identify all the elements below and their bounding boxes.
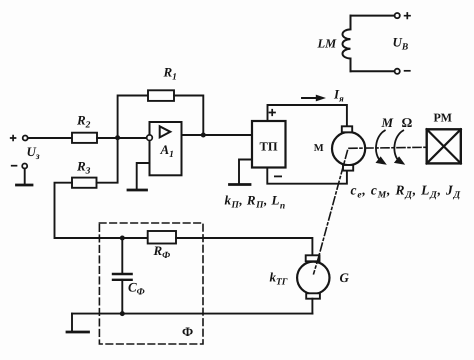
- wire filter bottom: [72, 313, 312, 315]
- wire LM top to plus terminal: [351, 15, 395, 17]
- node junction J1: [115, 135, 120, 140]
- node junction J3: [120, 236, 125, 241]
- resistor RF: [148, 231, 176, 244]
- svg-text:Ф: Ф: [182, 324, 193, 339]
- capacitor CF: [121, 238, 123, 274]
- wire TP ground: [239, 160, 252, 184]
- terminal plus field: [395, 13, 400, 18]
- arc arrow M: [376, 131, 385, 162]
- inductor LM coil: [343, 16, 351, 72]
- wire filter top right to tacho: [176, 238, 312, 255]
- wire LM bottom to minus terminal: [351, 70, 395, 72]
- wire R3 right to junction J1: [97, 138, 118, 183]
- wire bottom to ground: [71, 314, 73, 331]
- wire plus terminal to R2: [28, 137, 72, 139]
- resistor R1: [148, 90, 174, 101]
- terminal minus input: [12, 165, 17, 167]
- op-amp U1 box: [150, 122, 182, 175]
- op-amp triangle: [160, 126, 171, 137]
- svg-text:Ω: Ω: [402, 115, 413, 130]
- filter dashed box: [99, 223, 203, 344]
- wire tacho bottom: [311, 299, 313, 314]
- svg-text:G: G: [340, 270, 350, 285]
- ground TP: [230, 183, 251, 186]
- wire op-amp ground: [137, 163, 150, 189]
- resistor R2: [72, 133, 97, 143]
- terminal minus field: [395, 69, 400, 74]
- node junction J4: [120, 311, 125, 316]
- svg-text:M: M: [381, 115, 394, 130]
- wire R2 to amp input: [97, 137, 147, 139]
- motor bottom brush: [343, 165, 353, 171]
- terminal plus input: [11, 136, 16, 141]
- tacho top brush: [306, 255, 320, 261]
- op-amp input open circle: [147, 135, 153, 141]
- svg-text:LM: LM: [317, 37, 338, 51]
- tacho bottom brush: [306, 293, 320, 298]
- svg-text:ТП: ТП: [260, 140, 278, 154]
- ground input: [17, 184, 33, 187]
- wire op-amp output to TP: [182, 134, 253, 136]
- arc arrow Omega: [394, 131, 403, 162]
- wire feedback right riser: [174, 96, 203, 136]
- wire TP plus to motor: [268, 105, 347, 126]
- wire minus terminal to ground: [24, 169, 26, 184]
- shaft dash-dot horizontal: [349, 147, 427, 148]
- label minus TP: [275, 175, 281, 177]
- converter TP box: [252, 121, 286, 168]
- tacho G circle: [297, 262, 329, 294]
- resistor R3: [72, 178, 97, 188]
- shaft dash-dot diagonal to tacho: [313, 151, 347, 277]
- wire TP minus to motor: [267, 168, 347, 184]
- node junction J2: [201, 133, 206, 138]
- wire feedback left riser: [118, 96, 148, 138]
- mechanism PM box: [427, 129, 461, 163]
- ground op-amp: [128, 189, 147, 192]
- svg-text:М: М: [314, 143, 324, 154]
- shaft dash-dot inside tacho: [314, 257, 319, 274]
- label plus TP: [270, 110, 276, 116]
- ground filter: [67, 331, 89, 334]
- arrow Ia current: [302, 97, 318, 99]
- wire R3 left down to filter: [55, 183, 100, 238]
- wire filter top left segment: [99, 237, 147, 239]
- motor M circle: [332, 132, 365, 165]
- motor top brush: [342, 126, 352, 132]
- svg-text:РМ: РМ: [434, 111, 452, 125]
